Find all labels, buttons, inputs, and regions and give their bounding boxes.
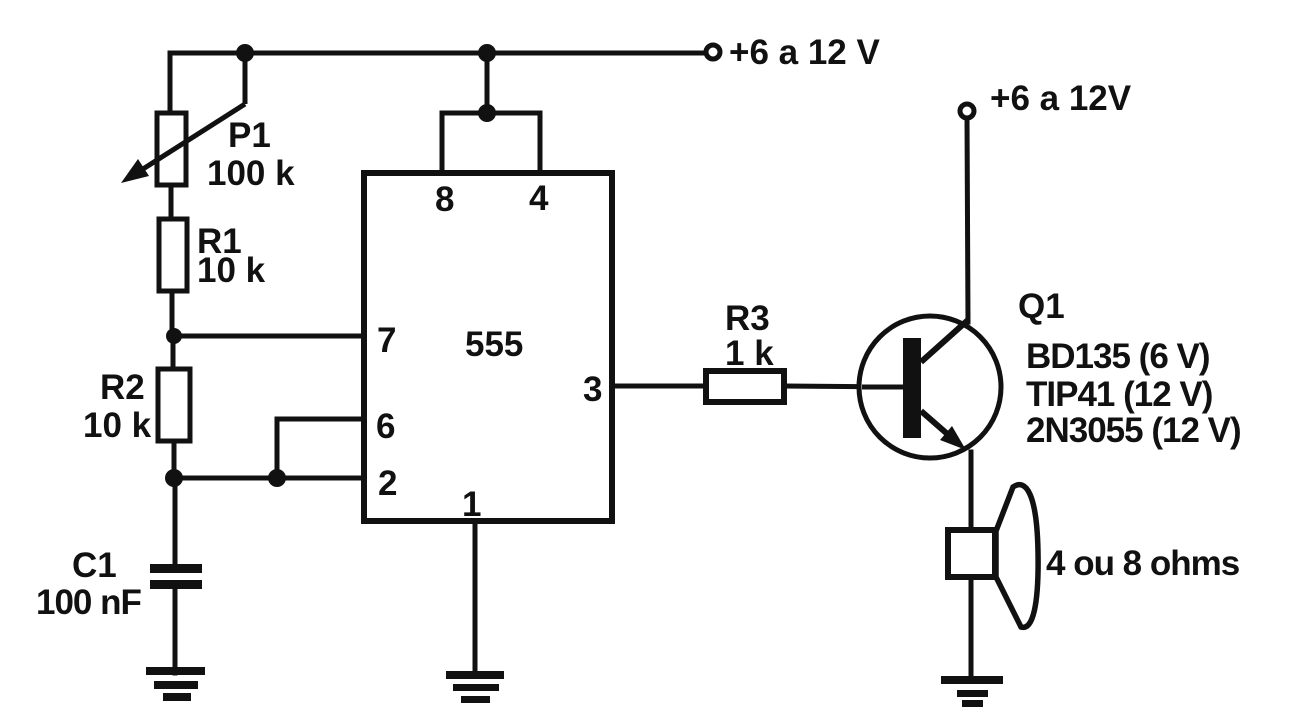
transistor Q1 emitter lead with arrow [921, 411, 952, 438]
resistor R1 body [159, 219, 187, 291]
svg-text:8: 8 [435, 180, 454, 219]
wire pin 7 [174, 334, 366, 339]
potentiometer P1 body [157, 113, 186, 185]
potentiometer P1 wiper arrow [132, 51, 245, 176]
ground under speaker [941, 676, 1003, 707]
speaker LS1 cone [996, 485, 1038, 628]
svg-text:2: 2 [378, 464, 397, 503]
wire R2 to node 2 [172, 439, 177, 480]
transistor Q1 circle [859, 316, 1001, 458]
svg-text:BD135 (6 V): BD135 (6 V) [1026, 337, 1210, 376]
svg-text:+6 a 12V: +6 a 12V [990, 79, 1132, 118]
svg-text:4: 4 [529, 179, 549, 218]
ground under C1 [146, 667, 205, 701]
transistor Q1 collector lead [921, 320, 968, 362]
svg-text:7: 7 [377, 321, 396, 360]
ground under 555 pin 1 [446, 671, 504, 703]
svg-text:4 ou 8 ohms: 4 ou 8 ohms [1046, 544, 1240, 583]
node junction top rail / P1 wiper [236, 44, 254, 62]
wire C1 to ground [173, 587, 178, 673]
svg-text:100 nF: 100 nF [36, 583, 141, 622]
svg-text:C1: C1 [72, 546, 117, 585]
svg-text:+6 a 12 V: +6 a 12 V [729, 33, 880, 72]
node junction R2 C1 pin 2 [165, 469, 183, 487]
svg-text:100 k: 100 k [207, 154, 295, 193]
wire R1 to node 7 [170, 289, 175, 338]
terminal supply left [706, 45, 720, 59]
wire speaker to ground [969, 577, 974, 679]
svg-text:3: 3 [583, 370, 602, 409]
wire left drop to P1 [168, 53, 173, 115]
wire node to R2 [171, 336, 176, 372]
wire pin 2 [174, 476, 366, 481]
wire Q1 collector riser [967, 117, 968, 322]
speaker LS1 box [948, 530, 995, 577]
svg-text:10 k: 10 k [197, 251, 266, 290]
resistor R3 body [706, 371, 784, 402]
node junction top rail / 555 supply [478, 44, 496, 62]
wire R3 to Q1 base [784, 386, 903, 387]
wire supply to 555 bracket [485, 53, 490, 113]
node junction bracket pins 8-4 [478, 104, 496, 122]
node junction R1 R2 pin 7 [166, 328, 182, 344]
svg-text:Q1: Q1 [1018, 287, 1065, 326]
node junction pin 6 branch [268, 469, 286, 487]
svg-text:R3: R3 [725, 299, 770, 338]
transistor Q1 base lead inside [862, 385, 903, 390]
svg-text:P1: P1 [228, 116, 271, 155]
wire top supply rail [170, 51, 706, 56]
svg-text:TIP41 (12 V): TIP41 (12 V) [1026, 375, 1212, 414]
svg-text:10 k: 10 k [83, 406, 152, 445]
wire 555 pins 8-4 top bracket [442, 113, 540, 175]
terminal supply right [960, 104, 974, 118]
svg-text:555: 555 [465, 325, 523, 364]
svg-text:6: 6 [376, 407, 395, 446]
wire node to C1 [173, 478, 178, 566]
capacitor C1 plates [150, 564, 202, 589]
wire P1 to R1 [169, 183, 174, 222]
svg-text:1 k: 1 k [725, 334, 774, 373]
svg-text:R2: R2 [100, 368, 145, 407]
wire pin 3 to R3 [612, 384, 708, 389]
svg-text:2N3055 (12 V): 2N3055 (12 V) [1026, 411, 1241, 450]
wire Q1 emitter to speaker [969, 452, 974, 532]
wire pin 1 to ground [473, 521, 478, 672]
IC 555 body U1 [364, 173, 612, 521]
transistor Q1 base bar [903, 338, 921, 438]
wire pin 6 bracket [277, 419, 366, 478]
svg-text:1: 1 [462, 485, 481, 524]
resistor R2 body [158, 369, 190, 441]
